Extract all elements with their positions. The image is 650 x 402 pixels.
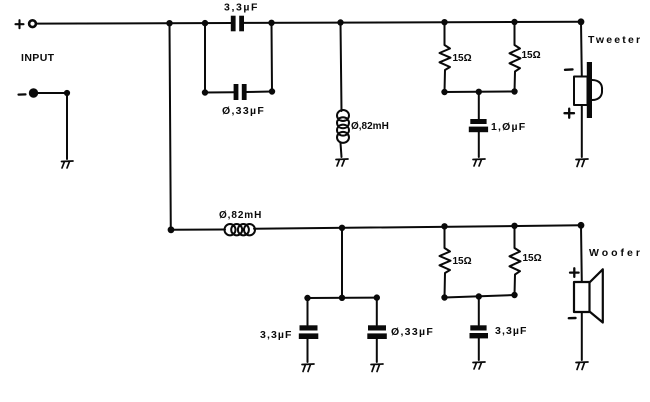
- inductor L2 0.82mH (series coil): [225, 224, 255, 235]
- wire: woofer to ground: [581, 312, 583, 360]
- wire: resistor bottom bus (woofer): [445, 295, 515, 298]
- ground (C6): [473, 362, 485, 369]
- svg-text:15Ω: 15Ω: [522, 50, 541, 61]
- wire: C3 to ground: [478, 132, 480, 157]
- node: tweeter R2 top junction: [512, 19, 517, 24]
- wire: inductor to ground: [341, 143, 342, 157]
- svg-text:Ø,33µF: Ø,33µF: [391, 326, 434, 338]
- wire: down to woofer: [580, 225, 583, 282]
- svg-text:Woofer: Woofer: [589, 247, 643, 259]
- wire: shunt cap bus: [308, 297, 377, 299]
- node: C6 top junction: [476, 294, 481, 299]
- wire: down to C4: [307, 298, 309, 325]
- capacitor C4 3.3uF (plates): [300, 325, 318, 330]
- svg-text:3,3µF: 3,3µF: [224, 2, 259, 14]
- node: shunt bus middle junction: [339, 295, 344, 300]
- svg-text:Ø,82mH: Ø,82mH: [219, 210, 262, 221]
- wire: down to C5: [376, 298, 378, 325]
- label +: [16, 20, 24, 28]
- wire: C5 to ground: [376, 339, 378, 362]
- node: woofer corner junction: [578, 222, 584, 228]
- ground (C4): [302, 364, 314, 372]
- node: shunt inductor top junction: [338, 20, 343, 25]
- wire: negative terminal to corner: [38, 92, 68, 94]
- label - (tweeter): [565, 68, 573, 71]
- terminal - (input negative): [29, 89, 37, 97]
- woofer SP2 (driver symbol): [574, 282, 590, 312]
- node: tweeter R1 top junction: [442, 20, 447, 25]
- wire: woofer rail to series inductor: [171, 229, 225, 231]
- ground (C5): [371, 364, 383, 372]
- tweeter SP1 (driver symbol): [574, 77, 588, 106]
- wire: C6 to ground: [478, 338, 480, 360]
- node: woofer R3 top junction: [442, 224, 447, 229]
- wire: tweeter to ground: [581, 105, 583, 157]
- svg-text:15Ω: 15Ω: [453, 53, 472, 64]
- wire: negative down to ground: [66, 93, 68, 159]
- node: tweeter corner junction: [578, 19, 584, 25]
- node: R4 bottom junction: [512, 292, 517, 297]
- wire: bottom of cap bank left: [205, 91, 234, 93]
- svg-text:15Ω: 15Ω: [453, 256, 472, 267]
- node: woofer shunt cap junction: [339, 225, 344, 230]
- node: R1 bottom junction: [442, 89, 447, 94]
- node: R3 bottom junction: [442, 295, 447, 300]
- node: tweeter/woofer split junction: [167, 21, 172, 26]
- label -: [19, 93, 26, 95]
- node: cap bank left bottom junction: [202, 90, 207, 95]
- ground (woofer): [576, 362, 588, 370]
- capacitor C5 0.33uF (plates): [368, 325, 386, 330]
- svg-text:3,3µF: 3,3µF: [260, 329, 293, 341]
- label - (woofer): [569, 317, 576, 320]
- svg-text:Ø,82mH: Ø,82mH: [351, 121, 389, 132]
- ground (tweeter): [576, 159, 588, 167]
- svg-text:Tweeter: Tweeter: [588, 34, 642, 46]
- node: C3 top junction: [476, 89, 481, 94]
- wire: bottom of cap bank right: [246, 91, 272, 94]
- svg-text:15Ω: 15Ω: [523, 253, 542, 264]
- resistor R1 15 ohm: [440, 22, 451, 92]
- capacitor C2 0.33uF (plates): [234, 84, 239, 100]
- wire: down to tweeter: [580, 22, 583, 76]
- wire: cap bank right leg down: [271, 23, 274, 92]
- wire: down to shunt inductor: [341, 23, 342, 112]
- capacitor C6 3.3uF (plates): [470, 325, 486, 330]
- ground (shunt inductor): [336, 159, 348, 166]
- terminal + (input positive): [29, 20, 36, 27]
- label + (woofer): [570, 268, 579, 277]
- capacitor C3 1.0uF (plates): [470, 119, 486, 124]
- wire: cap right plate to tweeter corner: [244, 22, 581, 23]
- node: R2 bottom junction: [512, 89, 517, 94]
- wire: C4 to ground: [307, 339, 309, 362]
- resistor R3 15 ohm: [440, 226, 451, 297]
- resistor R4 15 ohm: [510, 226, 521, 295]
- wire: down to C6: [478, 297, 480, 326]
- ground (C3): [473, 159, 485, 166]
- node: woofer R4 top junction: [512, 223, 517, 228]
- svg-text:INPUT: INPUT: [21, 52, 55, 64]
- wire: series inductor to woofer corner: [254, 225, 581, 229]
- node: cap bank left top junction: [202, 20, 207, 25]
- node: woofer rail left junction: [168, 227, 174, 233]
- svg-text:3,3µF: 3,3µF: [495, 325, 528, 337]
- node: shunt bus right junction: [374, 295, 379, 300]
- node: negative corner junction: [64, 90, 69, 95]
- inductor L1 0.82mH (vertical coil): [337, 110, 349, 143]
- capacitor C1 3.3uF (plates): [231, 16, 236, 32]
- wire: top rail from + terminal to cap left plate: [36, 22, 231, 25]
- node: cap bank right bottom junction: [269, 89, 274, 94]
- wire: resistor bottom bus (tweeter): [445, 91, 515, 94]
- wire: down to C3: [478, 92, 480, 119]
- node: shunt bus left junction: [305, 295, 310, 300]
- ground (input): [62, 161, 74, 168]
- svg-text:1,ØµF: 1,ØµF: [491, 121, 526, 133]
- node: cap bank right top junction: [269, 20, 274, 25]
- wire: down to shunt cap bus: [341, 228, 343, 298]
- wire: cap bank left leg down: [204, 23, 206, 92]
- svg-text:Ø,33µF: Ø,33µF: [222, 105, 265, 117]
- wire: feed down to woofer section: [170, 23, 171, 230]
- resistor R2 15 ohm: [510, 22, 521, 92]
- label + (tweeter): [565, 109, 575, 118]
